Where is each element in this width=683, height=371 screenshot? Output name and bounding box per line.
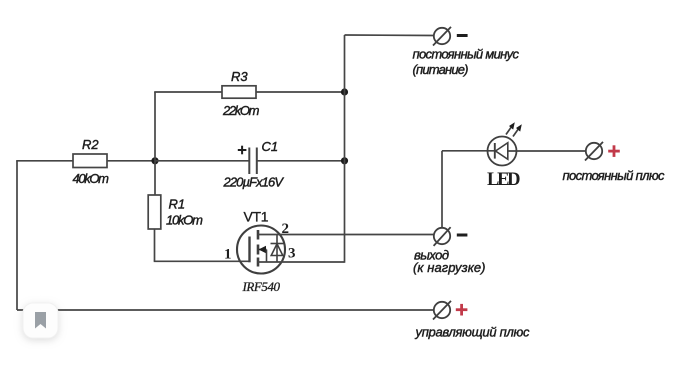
- svg-text:LED: LED: [487, 170, 521, 190]
- label C1 polarity plus: [238, 146, 247, 155]
- node junction C1/bus: [341, 157, 348, 164]
- LED: [488, 122, 522, 165]
- svg-text:R1: R1: [169, 197, 186, 212]
- bookmark button: [23, 303, 58, 338]
- svg-text:10kOm: 10kOm: [166, 213, 203, 228]
- svg-text:R2: R2: [82, 137, 99, 152]
- label plus sign (управляющий): [456, 304, 468, 316]
- svg-text:1: 1: [224, 247, 232, 263]
- label minus sign (выход): [457, 234, 468, 237]
- wire junction to C1 left plate: [155, 160, 249, 162]
- wire gate lead to VT1: [154, 260, 250, 262]
- wire to R3 left: [154, 91, 222, 93]
- svg-text:R3: R3: [231, 69, 248, 84]
- wire drain pin2 to output terminal: [258, 234, 434, 236]
- wire LED branch vertical: [441, 151, 443, 228]
- wire vertical R3-to-R1 branch: [154, 92, 156, 195]
- wire source pin3 to bus: [258, 261, 345, 263]
- terminal постоянный плюс: [585, 142, 603, 161]
- resistor R2: [73, 154, 107, 168]
- svg-text:22kOm: 22kOm: [222, 103, 260, 118]
- capacitor C1: [249, 148, 256, 175]
- wire R2 to junction: [107, 160, 155, 162]
- wire bottom to control-plus terminal: [17, 309, 434, 311]
- svg-text:(питание): (питание): [413, 62, 469, 77]
- node junction R3/bus: [341, 88, 348, 95]
- wire LED to plus terminal: [516, 150, 586, 152]
- svg-text:постоянный плюс: постоянный плюс: [563, 168, 666, 183]
- svg-text:IRF540: IRF540: [242, 279, 281, 294]
- wire left vertical: [16, 161, 18, 310]
- svg-text:постоянный минус: постоянный минус: [413, 47, 520, 62]
- svg-text:3: 3: [288, 246, 296, 262]
- wire C1 right plate to bus: [257, 160, 345, 162]
- terminal управляющий плюс: [433, 301, 451, 320]
- wire top to minus terminal: [345, 34, 435, 37]
- svg-text:управляющий плюс: управляющий плюс: [415, 325, 531, 340]
- svg-text:(к нагрузке): (к нагрузке): [413, 260, 486, 275]
- wire bus vertical minus rail: [344, 35, 346, 263]
- resistor R3: [222, 86, 256, 98]
- svg-text:220µFx16V: 220µFx16V: [223, 175, 285, 190]
- terminal постоянный минус: [433, 27, 451, 46]
- terminal выход: [434, 227, 451, 246]
- label minus sign (питание): [457, 34, 468, 37]
- node junction R2/R1/C1: [151, 157, 158, 164]
- svg-text:C1: C1: [262, 139, 279, 154]
- svg-text:VT1: VT1: [244, 209, 269, 225]
- wire LED left lead: [442, 150, 495, 152]
- resistor R1: [148, 195, 161, 229]
- wire R3 to bus: [256, 91, 345, 93]
- transistor VT1: [237, 226, 285, 274]
- svg-text:40kOm: 40kOm: [73, 171, 110, 186]
- wire R1 bottom: [154, 229, 156, 261]
- label plus sign (постоянный): [608, 145, 620, 157]
- wire to R2 left: [16, 160, 73, 162]
